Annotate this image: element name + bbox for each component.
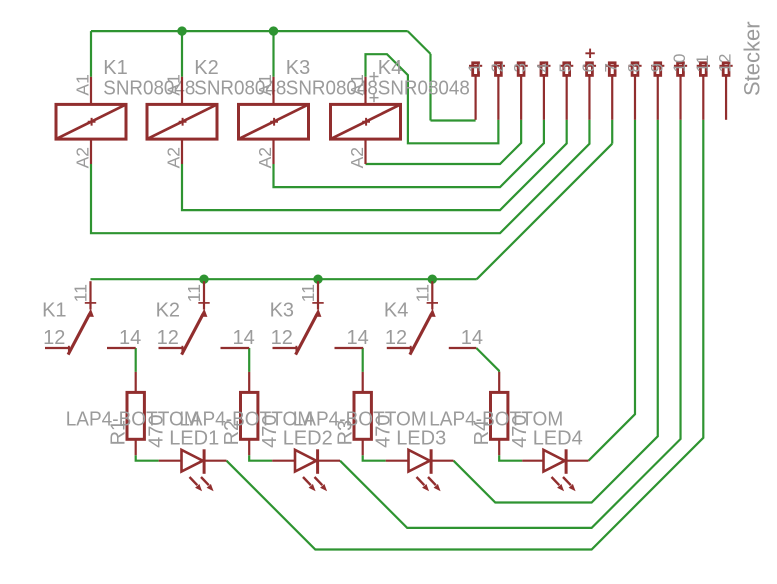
svg-text:K4: K4 xyxy=(378,57,402,79)
connector pin 9 xyxy=(651,63,664,120)
relay coil K2 SNR08048 xyxy=(147,77,217,164)
wire contact K3 pin 14 to resistor R3 xyxy=(362,348,364,372)
svg-text:2: 2 xyxy=(488,63,507,72)
svg-text:LED1: LED1 xyxy=(169,428,219,450)
connector polarity plus mark xyxy=(585,52,594,54)
svg-text:LED4: LED4 xyxy=(533,428,583,450)
wire net N1 drop to K1 coil A1 xyxy=(90,31,92,77)
wire net N1 45-degree bend xyxy=(408,31,431,54)
wire net N10 LED2 cathode to connector pin 10 xyxy=(340,120,681,528)
relay coil K1 SNR08048 xyxy=(56,77,126,164)
connector pin 2 xyxy=(492,63,505,120)
junction net N1 at K2 coil xyxy=(177,26,186,35)
wire net N1 drop to K2 coil A1 xyxy=(181,31,183,77)
wire net N2 from K4 coil A1 to connector pin 2 xyxy=(366,54,499,143)
svg-text:SNR08048: SNR08048 xyxy=(378,77,470,99)
relay contact K4 (SPDT switch) xyxy=(387,281,477,354)
connector pin 6 xyxy=(583,63,596,120)
wire resistor R3 to LED3 anode xyxy=(363,455,386,461)
wire net N9 LED3 cathode to connector pin 9 xyxy=(454,120,658,503)
relay contact K2 (SPDT switch) xyxy=(159,281,250,354)
svg-text:14: 14 xyxy=(233,327,255,349)
svg-text:K4: K4 xyxy=(384,299,408,321)
svg-text:K3: K3 xyxy=(286,57,310,79)
pin connection crosses at K4 A1 xyxy=(370,76,379,78)
connector pin 1 xyxy=(469,63,482,120)
connector pin 8 xyxy=(628,63,641,120)
svg-text:A1: A1 xyxy=(255,74,275,95)
connector pin 7 xyxy=(606,63,619,120)
wire net N1 drop to K3 coil A1 xyxy=(272,31,274,77)
svg-text:7: 7 xyxy=(602,63,621,72)
svg-text:11: 11 xyxy=(693,55,712,73)
relay coil K3 SNR08048 xyxy=(239,77,309,164)
wire net N6 from K1 coil A2 to connector pin 6 xyxy=(91,120,589,233)
svg-text:A2: A2 xyxy=(347,147,367,168)
wire net N1 top supply bus horizontal xyxy=(91,30,408,32)
wire net N4 from K3 coil A2 to connector pin 4 xyxy=(274,120,544,187)
svg-text:12: 12 xyxy=(271,327,293,349)
svg-text:14: 14 xyxy=(347,327,369,349)
svg-text:1: 1 xyxy=(465,63,484,72)
svg-text:12: 12 xyxy=(385,327,407,349)
svg-text:LAP4-BOTTOM: LAP4-BOTTOM xyxy=(429,409,563,431)
svg-text:K1: K1 xyxy=(42,299,66,321)
svg-text:8: 8 xyxy=(624,63,643,72)
wire net N11 LED1 cathode to connector pin 11 xyxy=(227,120,704,550)
LED3 LAP4-BOTTOM xyxy=(386,449,454,491)
resistor R4 470 xyxy=(491,372,508,455)
svg-text:11: 11 xyxy=(184,284,204,302)
wire net N7 contact common bus horizontal xyxy=(91,278,477,280)
svg-text:6: 6 xyxy=(579,63,598,72)
connector pin 12 xyxy=(719,63,732,120)
svg-text:A1: A1 xyxy=(164,74,184,95)
svg-text:3: 3 xyxy=(511,63,530,72)
relay coil K4 SNR08048 xyxy=(331,77,401,164)
wire net N7 vertical to pin 7 xyxy=(611,120,613,144)
wire contact K2 pin 14 to resistor R2 xyxy=(248,348,250,372)
junction net N7 at contact K4 xyxy=(428,275,437,284)
resistor R3 470 xyxy=(354,372,371,455)
wire resistor R2 to LED2 anode xyxy=(249,455,272,461)
svg-text:Stecker: Stecker xyxy=(740,21,765,96)
svg-text:K2: K2 xyxy=(156,299,180,321)
svg-text:A1: A1 xyxy=(347,74,367,95)
LED4 LAP4-BOTTOM xyxy=(522,449,588,491)
svg-text:A2: A2 xyxy=(73,147,93,168)
junction net N7 at contact K3 xyxy=(313,275,322,284)
connector pin 11 xyxy=(697,63,710,120)
svg-text:K3: K3 xyxy=(270,299,294,321)
svg-text:12: 12 xyxy=(157,327,179,349)
junction net N7 at contact K2 xyxy=(199,275,208,284)
wire resistor R4 to LED4 anode xyxy=(499,455,522,461)
svg-text:11: 11 xyxy=(298,284,318,302)
svg-text:A2: A2 xyxy=(164,147,184,168)
svg-text:14: 14 xyxy=(461,327,483,349)
svg-text:LED3: LED3 xyxy=(396,428,446,450)
resistor R1 470 xyxy=(127,372,144,455)
wire net N7 45-degree rise to pin 7 xyxy=(477,144,613,280)
wire net N1 vertical drop xyxy=(429,54,431,121)
wire net N5 from K2 coil A2 to connector pin 5 xyxy=(182,120,567,210)
svg-text:11: 11 xyxy=(71,284,91,302)
svg-text:LED2: LED2 xyxy=(283,428,333,450)
wire contact K4 pin 14 to resistor R4 (45-degree jog) xyxy=(476,348,499,372)
connector pin 4 xyxy=(537,63,550,120)
connector pin 5 xyxy=(560,63,573,120)
svg-text:14: 14 xyxy=(119,327,141,349)
junction net N1 at K3 coil xyxy=(269,26,278,35)
LED2 LAP4-BOTTOM xyxy=(272,449,340,491)
connector pin 3 xyxy=(515,63,528,120)
LED1 LAP4-BOTTOM xyxy=(159,449,227,491)
svg-text:9: 9 xyxy=(647,63,666,72)
connector pin 10 xyxy=(674,63,687,120)
svg-text:LAP4-BOTTOM: LAP4-BOTTOM xyxy=(293,409,427,431)
wire resistor R1 to LED1 anode xyxy=(136,455,159,461)
svg-text:4: 4 xyxy=(533,63,552,72)
svg-text:12: 12 xyxy=(716,54,735,73)
svg-text:A1: A1 xyxy=(73,74,93,95)
svg-text:12: 12 xyxy=(43,327,65,349)
svg-text:K2: K2 xyxy=(194,57,218,79)
relay contact K3 (SPDT switch) xyxy=(273,281,364,354)
wire contact K1 pin 14 to resistor R1 xyxy=(135,348,137,372)
wire net N3 from K4 coil A2 to connector pin 3 xyxy=(366,120,522,164)
resistor R2 470 xyxy=(241,372,258,455)
svg-text:A2: A2 xyxy=(255,147,275,168)
svg-text:11: 11 xyxy=(412,284,432,302)
svg-text:K1: K1 xyxy=(103,57,127,79)
wire net N8 LED4 cathode to connector pin 8 xyxy=(589,120,635,461)
svg-text:5: 5 xyxy=(556,63,575,72)
relay contact K1 (SPDT switch) xyxy=(45,281,136,354)
wire net N1 horizontal to pin 1 xyxy=(431,119,476,121)
svg-text:10: 10 xyxy=(670,54,689,73)
